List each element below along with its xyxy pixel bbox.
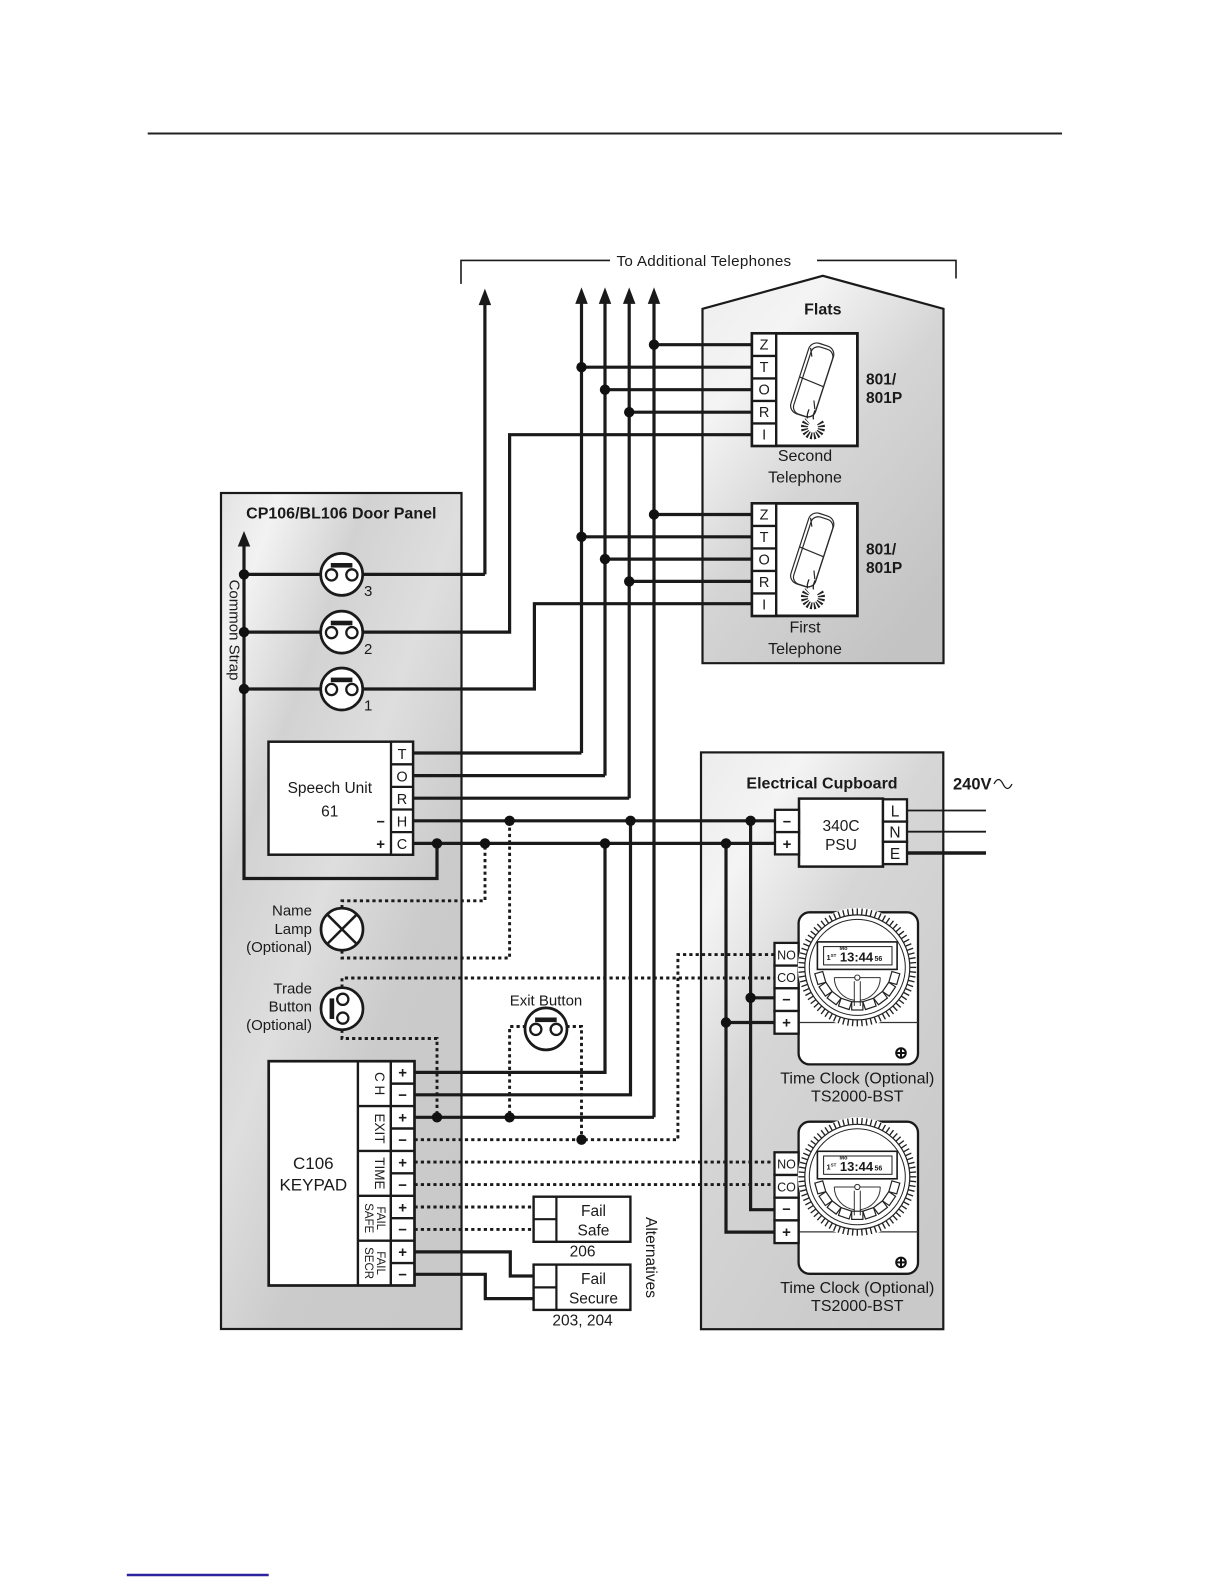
svg-text:C: C [397,837,407,853]
svg-text:+: + [398,1154,407,1171]
svg-text:NO: NO [777,1158,796,1172]
svg-text:56: 56 [875,956,883,963]
junction H rail / lamp [504,816,514,826]
svg-text:Second: Second [778,448,832,465]
arrow: additional phones I riser [479,289,492,306]
wire: keypad CH- to H rail [415,821,631,1095]
svg-text:FAILSECR: FAILSECR [362,1247,386,1279]
wire: second phone T branch [582,366,753,369]
dotted wire: keypad FAILSAFE+ to fail safe [415,1206,534,1209]
svg-text:CO: CO [777,1180,796,1194]
svg-text:Z: Z [760,508,769,524]
svg-text:+: + [783,836,792,853]
wire: + rail to time clocks [726,843,775,1232]
junction clock1 + terminal [721,1017,731,1027]
svg-text:−: − [398,1267,407,1284]
wire: speech unit T to riser [413,751,582,754]
svg-text:13:44: 13:44 [840,950,874,965]
dotted wire: exit button left to EXIT+ [510,1027,526,1118]
svg-text:Electrical Cupboard: Electrical Cupboard [746,776,897,793]
svg-text:I: I [762,428,766,444]
call button 2 [321,611,363,653]
svg-text:+: + [398,1110,407,1127]
svg-text:801/: 801/ [866,372,897,389]
wire: mains E [907,851,986,854]
svg-text:206: 206 [570,1244,596,1261]
door panel enclosure CP106/BL106 [221,493,462,1329]
svg-text:FAILSAFE: FAILSAFE [362,1203,386,1233]
svg-text:3: 3 [364,583,372,600]
wire: second phone O branch [605,388,752,391]
svg-text:Telephone: Telephone [768,470,842,487]
keypad C106 [269,1061,415,1285]
fail safe release 206 [534,1197,631,1242]
wire: first phone Z branch [654,513,752,516]
junction Z riser / second phone [649,340,659,350]
svg-text:−: − [782,1202,790,1218]
wire: keypad EXIT+ to Z riser [415,1116,655,1119]
telephone unit second 801/801P [752,333,857,446]
wire: speech unit O to riser [413,774,605,777]
junction EXIT+ / exit button [504,1112,514,1122]
wire: first phone O branch [605,557,752,560]
svg-text:Lamp: Lamp [274,921,312,938]
svg-text:C106: C106 [293,1154,334,1173]
svg-text:56: 56 [875,1165,883,1172]
wire: keypad CH+ to C rail [415,843,606,1072]
junction O riser / second phone [600,385,610,395]
wire: mains N [907,831,986,833]
svg-text:Time Clock (Optional): Time Clock (Optional) [780,1071,934,1088]
svg-text:+: + [398,1065,407,1082]
junction T riser / first phone [576,532,586,542]
junction C rail / lamp [480,838,490,848]
svg-text:240V: 240V [953,776,992,794]
time clock 2 TS2000-BST [775,1117,919,1274]
arrow: R riser [623,287,636,304]
svg-text:Fail: Fail [581,1271,606,1288]
svg-text:Alternatives: Alternatives [642,1217,659,1298]
time clock 1 TS2000-BST [775,908,919,1065]
svg-text:T: T [760,530,769,546]
svg-text:13:44: 13:44 [840,1159,874,1174]
dotted wire: name lamp top to C rail [342,843,485,908]
svg-text:PSU: PSU [825,837,857,854]
flats enclosure (house shape) [703,276,944,663]
svg-text:T: T [760,360,769,376]
call button 1 [321,668,363,710]
junction clock1 - terminal [745,993,755,1003]
junction O riser / first phone [600,554,610,564]
arrow: Z riser [648,287,661,304]
svg-text:−: − [783,814,791,830]
svg-text:Speech Unit: Speech Unit [288,780,373,797]
svg-text:(Optional): (Optional) [246,939,312,956]
svg-text:Z: Z [760,338,769,354]
wire: button 3 to additional riser [244,573,485,576]
svg-text:Trade: Trade [273,980,312,997]
dotted wire: keypad TIME+ to clock2 NO [415,1161,775,1164]
svg-text:TS2000-BST: TS2000-BST [811,1089,904,1106]
common strap arrow and rail [238,531,251,547]
wire: button 1 to first phone I [244,604,752,689]
svg-text:Name: Name [272,903,312,920]
wire: first phone R branch [629,580,752,583]
junction EXIT+ / trade button [432,1112,442,1122]
wire: second phone Z branch [654,343,752,346]
svg-text:+: + [398,1199,407,1216]
svg-text:Button: Button [269,999,312,1016]
svg-text:+: + [376,836,385,853]
junction common strap / button 2 [239,627,249,637]
call button 3 [321,553,363,595]
svg-text:Secure: Secure [569,1290,618,1307]
svg-text:TS2000-BST: TS2000-BST [811,1298,904,1315]
wire: fail secure - link [415,1274,534,1298]
speech unit 61 [269,742,414,855]
svg-text:O: O [758,553,769,569]
junction R riser / first phone [624,576,634,586]
arrow: O riser [599,287,612,304]
svg-text:Flats: Flats [804,302,841,319]
svg-text:CP106/BL106 Door Panel: CP106/BL106 Door Panel [246,506,436,523]
svg-text:Time Clock (Optional): Time Clock (Optional) [780,1280,934,1297]
svg-text:T: T [398,747,407,763]
svg-text:C H: C H [372,1072,387,1095]
svg-text:O: O [396,769,407,785]
svg-text:801P: 801P [866,560,902,577]
bracket: to additional telephones [461,260,610,284]
svg-text:O: O [758,383,769,399]
dotted wire: keypad FAILSAFE- to fail safe [415,1228,534,1231]
sine wave symbol [994,780,1012,789]
svg-text:CO: CO [777,971,796,985]
wire: mains L [907,810,986,812]
svg-text:+: + [782,1015,791,1032]
wire: - rail to time clocks [751,821,775,1210]
svg-text:NO: NO [777,948,796,962]
junction C rail / strap [432,838,442,848]
svg-text:203, 204: 203, 204 [552,1312,613,1329]
svg-text:−: − [377,814,385,830]
dotted wire: name lamp bottom to H rail [342,821,510,958]
junction EXIT- / exit button [576,1135,586,1145]
svg-text:−: − [398,1177,407,1194]
name lamp (optional) [321,908,363,950]
telephone unit first 801/801P [752,503,857,616]
electrical cupboard enclosure [701,752,943,1329]
svg-text:+: + [398,1244,407,1261]
trade button (optional) [321,988,363,1030]
dotted wire: exit button right to EXIT- [566,1027,581,1140]
dotted wire: keypad TIME- to clock2 CO [415,1183,775,1186]
junction H rail / clock - [745,816,755,826]
footer underline (blue) [127,1574,269,1576]
svg-text:61: 61 [321,803,338,820]
svg-text:R: R [397,792,407,808]
svg-text:340C: 340C [822,818,859,835]
svg-text:Telephone: Telephone [768,641,842,658]
dotted wire: trade button top to clock1 CO [342,978,775,988]
arrow: T riser [575,287,588,304]
svg-text:E: E [890,846,900,863]
dotted wire: keypad EXIT- to clock1 NO [415,955,775,1140]
svg-text:Exit Button: Exit Button [510,992,583,1009]
wire: first phone T branch [582,535,753,538]
svg-text:To Additional Telephones: To Additional Telephones [617,253,792,270]
junction common strap / button 3 [239,569,249,579]
svg-text:R: R [759,575,769,591]
svg-text:Safe: Safe [578,1223,610,1240]
junction common strap / button 1 [239,684,249,694]
junction R riser / second phone [624,407,634,417]
svg-text:(Optional): (Optional) [246,1017,312,1034]
dotted wire: trade button bottom to EXIT+ [342,1030,437,1118]
wire: speech unit R to riser [413,797,629,800]
svg-text:I: I [762,598,766,614]
svg-text:L: L [891,804,900,821]
junction Z riser / first phone [649,509,659,519]
junction C rail / keypad CH+ [600,838,610,848]
svg-text:−: − [782,993,790,1009]
svg-text:1: 1 [364,698,372,715]
wire: button 2 to second phone I [244,435,752,632]
junction T riser / second phone [576,362,586,372]
PSU 340C [775,799,907,867]
wire: fail secure + link [415,1252,534,1276]
junction C rail / clock + [721,838,731,848]
svg-text:R: R [759,405,769,421]
fail secure release 203/204 [534,1265,631,1310]
svg-text:−: − [398,1132,407,1149]
wire: C rail (speech unit C to PSU +) [413,842,775,845]
svg-text:First: First [789,620,821,637]
svg-text:+: + [782,1224,791,1241]
page top rule [148,133,1062,135]
junction H rail / keypad CH- [625,816,635,826]
svg-text:Fail: Fail [581,1203,606,1220]
svg-text:H: H [397,815,407,831]
svg-text:2: 2 [364,641,372,658]
svg-text:−: − [398,1087,407,1104]
svg-text:801/: 801/ [866,542,897,559]
svg-text:−: − [398,1222,407,1239]
svg-text:EXIT: EXIT [372,1113,387,1143]
svg-text:TIME: TIME [372,1157,387,1189]
wire: H rail (speech unit H to PSU -) [413,819,775,822]
wire: second phone R branch [629,411,752,414]
svg-text:KEYPAD: KEYPAD [279,1176,347,1195]
svg-text:N: N [889,825,900,842]
exit button [525,1008,567,1050]
svg-text:801P: 801P [866,390,902,407]
